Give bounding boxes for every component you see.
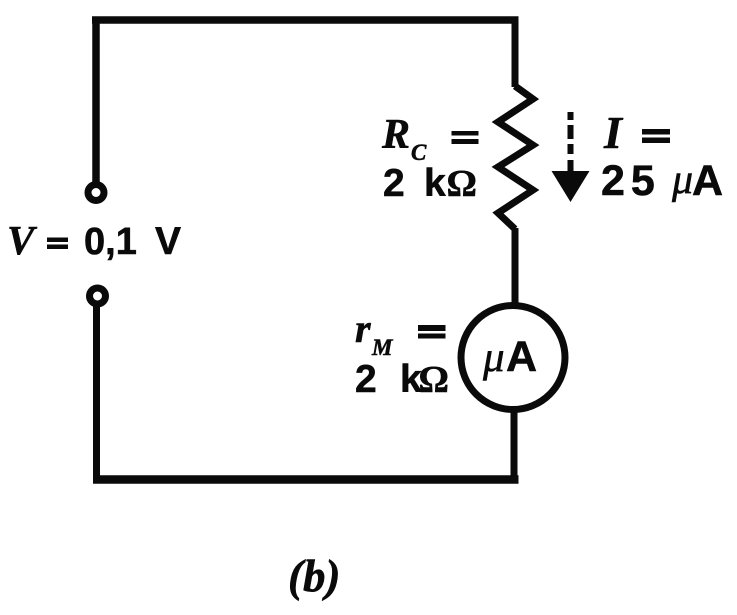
wire bottom (93, 475, 519, 484)
svg-text:Ω: Ω (447, 163, 477, 205)
resistor RC zigzag (498, 86, 533, 229)
svg-text:k: k (424, 162, 446, 205)
svg-text:μ: μ (482, 334, 505, 381)
equals sign of RC label (452, 131, 479, 136)
current arrow head (552, 171, 590, 202)
svg-text:μ: μ (671, 157, 693, 203)
meter M1 circle (461, 306, 565, 410)
equals sign of rM label (418, 325, 446, 331)
wire right upper (512, 17, 519, 88)
terminal top (88, 185, 104, 201)
svg-text:(b): (b) (288, 551, 340, 601)
svg-text:V: V (155, 220, 181, 263)
wire left lower (93, 305, 100, 483)
svg-text:25: 25 (601, 157, 661, 205)
svg-text:M: M (371, 335, 394, 360)
wire left upper (92, 17, 100, 183)
svg-text:r: r (355, 306, 371, 351)
wire right middle (512, 228, 519, 305)
wire right lower (511, 410, 518, 483)
wire top (92, 16, 519, 24)
svg-text:0,1: 0,1 (84, 221, 137, 263)
equals sign of I label (642, 129, 670, 135)
svg-text:Ω: Ω (419, 359, 449, 401)
svg-text:2: 2 (355, 358, 377, 401)
svg-text:V: V (7, 217, 38, 263)
svg-text:A: A (692, 157, 723, 205)
equals sign of V label (47, 238, 68, 243)
svg-text:I: I (603, 107, 624, 158)
svg-text:R: R (381, 112, 410, 158)
current arrow I dashed line (568, 112, 574, 172)
svg-text:A: A (506, 333, 537, 381)
terminal bottom (90, 288, 106, 304)
svg-text:2: 2 (383, 162, 405, 205)
